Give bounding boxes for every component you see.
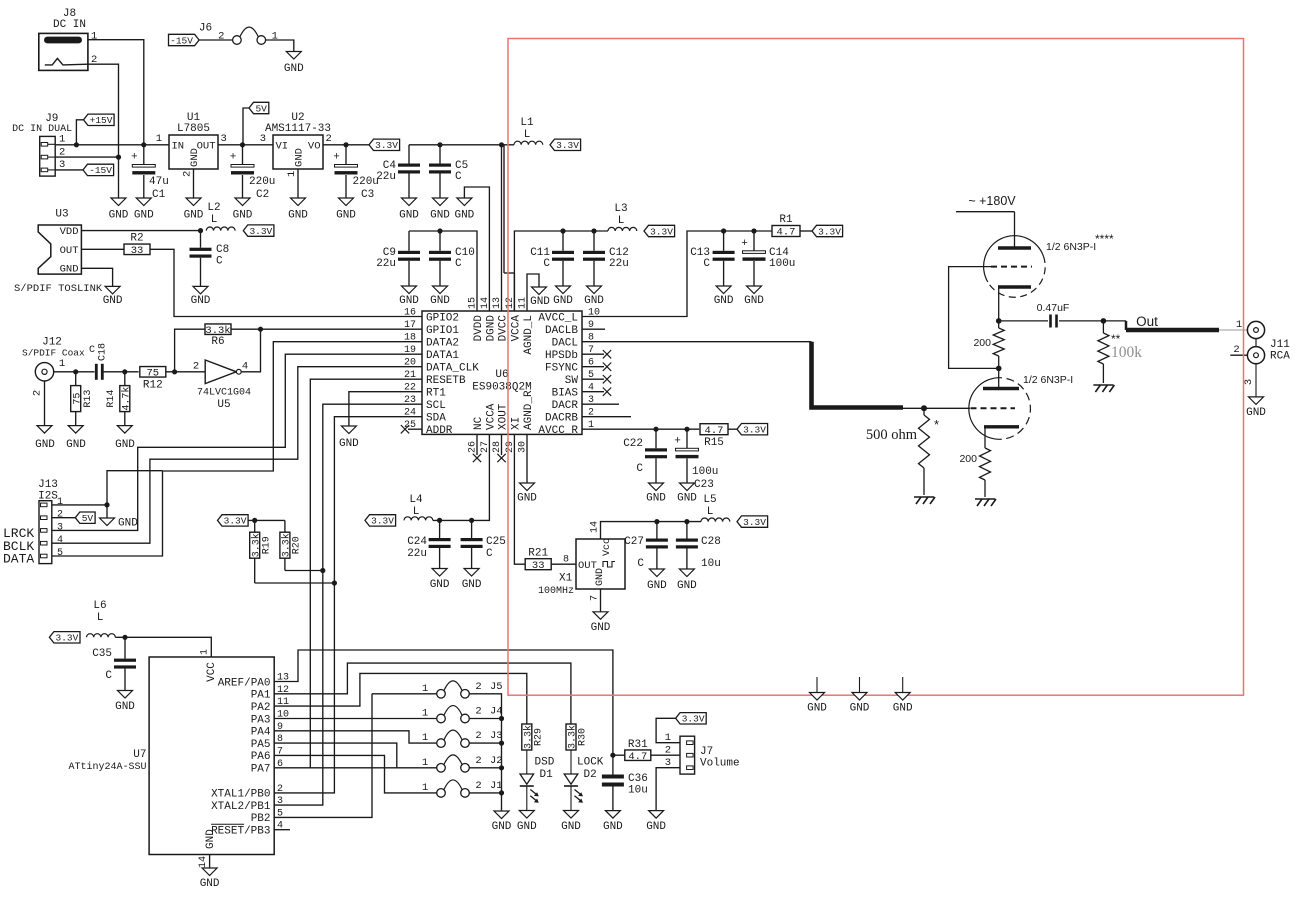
no-connect ADDR pin25 [401, 425, 409, 433]
wire DACL [582, 341, 812, 343]
svg-text:75: 75 [72, 393, 83, 405]
capacitor C22 [645, 448, 667, 458]
junction [591, 228, 596, 233]
junction [258, 327, 263, 332]
capacitor C5 [439, 145, 441, 198]
svg-text:C18: C18 [98, 343, 109, 361]
wire DACR stub [582, 403, 619, 405]
svg-text:3.3V: 3.3V [682, 714, 705, 725]
label C1 values [149, 176, 169, 201]
ground R13 [66, 426, 86, 451]
wire U1 OUT to U2 VI [218, 144, 273, 146]
wire J7 pin1 to 3.3V [656, 718, 680, 742]
inductor L4 [404, 517, 433, 521]
wire cathode to output cap [999, 320, 1048, 322]
resistor R15 [700, 424, 728, 437]
svg-text:GND: GND [189, 148, 201, 167]
ground C8 [191, 286, 211, 307]
jumper J4 [437, 706, 470, 723]
svg-text:4.7: 4.7 [628, 751, 647, 763]
svg-text:DATA1: DATA1 [426, 350, 459, 362]
wire [54, 371, 95, 373]
junction [252, 518, 257, 523]
wire U1 GND pin [193, 169, 195, 198]
junction [74, 142, 79, 147]
svg-text:C24: C24 [407, 536, 427, 548]
svg-text:DATA_CLK: DATA_CLK [426, 363, 479, 375]
label C9 values [376, 247, 396, 270]
svg-text:L: L [97, 612, 104, 624]
svg-text:VCC: VCC [206, 662, 218, 682]
resistor R20 3.3k [285, 520, 323, 570]
svg-text:3.3k: 3.3k [250, 533, 262, 557]
wire U2 GND pin [297, 169, 299, 198]
wire DATA_CLK to J13 [52, 367, 422, 544]
junction [499, 142, 504, 147]
svg-text:R6: R6 [211, 336, 224, 348]
no-connect [603, 375, 611, 383]
svg-text:XTAL2/PB1: XTAL2/PB1 [211, 801, 271, 813]
svg-text:C: C [636, 463, 643, 475]
svg-text:U7: U7 [133, 749, 146, 761]
wire [166, 371, 205, 373]
resistor R30 [566, 724, 579, 750]
svg-text:+15V: +15V [90, 115, 113, 126]
wire DATA2 to J13 [52, 342, 422, 556]
svg-text:3.3V: 3.3V [650, 226, 673, 237]
wire J9 pin1 to U1 IN [55, 144, 169, 146]
svg-text:RT1: RT1 [426, 388, 446, 400]
jumper J2 [437, 755, 470, 772]
wire U3 VDD to L2 [81, 230, 200, 232]
svg-text:DATA: DATA [3, 552, 34, 567]
label L2 [207, 202, 220, 226]
no-connect pin28 [497, 454, 505, 462]
svg-text:C: C [216, 256, 223, 268]
wire to RCA pin1 [1219, 329, 1247, 331]
junction [684, 427, 689, 432]
wire stub [582, 378, 604, 380]
wire RESET/PB3 stub [274, 829, 290, 831]
capacitor C3 [333, 152, 357, 175]
svg-text:GND: GND [60, 264, 79, 276]
junction [198, 228, 203, 233]
junction [240, 142, 245, 147]
svg-text:L: L [707, 506, 714, 518]
junction [332, 580, 337, 585]
svg-text:GND: GND [677, 580, 697, 592]
svg-text:C36: C36 [628, 773, 648, 785]
ground U2 [288, 198, 308, 222]
svg-text:-15V: -15V [170, 35, 193, 46]
power flag 3.3V J7 [676, 713, 707, 725]
ground D1 [517, 811, 537, 834]
svg-text:GND: GND [584, 295, 604, 307]
svg-text:U3: U3 [55, 209, 68, 221]
svg-text:SDA: SDA [426, 413, 446, 425]
svg-text:220u: 220u [249, 176, 275, 188]
svg-text:J1: J1 [490, 780, 503, 792]
svg-text:4.7: 4.7 [777, 227, 796, 239]
connector J13 I2S [38, 479, 63, 564]
svg-text:AREF/PA0: AREF/PA0 [218, 677, 271, 689]
label C11 values [530, 247, 550, 270]
label C14 values [769, 247, 795, 270]
svg-text:L: L [211, 214, 218, 226]
ground at J6 [284, 52, 304, 76]
capacitor C9 22u [408, 231, 410, 286]
wire PA1 to R30 [274, 663, 571, 724]
svg-text:100k: 100k [1111, 344, 1142, 361]
svg-text:10u: 10u [701, 558, 721, 570]
svg-text:GND: GND [553, 295, 573, 307]
junction [343, 142, 348, 147]
ground D2 [561, 811, 581, 834]
resistor R13 75 [75, 372, 77, 426]
label GND J13 [118, 518, 138, 530]
svg-text:GND: GND [430, 295, 450, 307]
ground C36 [603, 811, 623, 833]
wire stub to ground [816, 677, 818, 693]
junction [104, 502, 109, 507]
wire DACRB stub [582, 416, 631, 418]
label L6 [93, 600, 106, 624]
label lower tube [1023, 374, 1073, 386]
capacitor C11 [552, 251, 574, 261]
svg-text:GND: GND [284, 63, 304, 75]
svg-text:4: 4 [57, 535, 63, 546]
labels LRCK BCLK DATA [3, 526, 34, 567]
label R31 [628, 739, 648, 751]
U6 top pin names and numbers [468, 297, 536, 355]
svg-text:5: 5 [57, 548, 63, 559]
svg-text:GND: GND [561, 821, 581, 833]
capacitor C12 22u [593, 231, 595, 286]
wire J7 pin3 to ground [656, 768, 680, 811]
svg-text:GND: GND [430, 210, 450, 222]
labels J1 [422, 780, 503, 794]
svg-text:3.3k: 3.3k [205, 325, 230, 337]
svg-text:2: 2 [57, 510, 63, 521]
svg-text:AGND_L: AGND_L [523, 315, 535, 355]
resistor R21 [525, 559, 551, 572]
svg-text:VI: VI [276, 141, 289, 153]
wire C9/C10 rail to DVDD [409, 231, 477, 311]
svg-text:C: C [703, 258, 710, 270]
junction [141, 142, 146, 147]
svg-text:GND: GND [191, 295, 211, 307]
wire 3.3V rail to L1 [409, 144, 514, 146]
ground C10 [430, 286, 450, 307]
ground C27 [647, 569, 667, 592]
wire [81, 248, 124, 250]
label C36 values [628, 773, 648, 797]
label R20 [292, 536, 303, 554]
svg-text:GND: GND [66, 439, 86, 451]
svg-text:J5: J5 [490, 681, 503, 693]
ground U1 [184, 198, 204, 222]
capacitor C35 [114, 659, 136, 669]
wire R31 to J7 pin2 [651, 754, 680, 756]
wire R2 to U6 GPIO2 [150, 249, 422, 316]
svg-text:X1: X1 [559, 573, 573, 585]
earth ground cathode [975, 499, 996, 506]
svg-text:33: 33 [131, 245, 144, 257]
svg-text:J2: J2 [490, 755, 503, 767]
svg-text:2: 2 [475, 706, 481, 718]
svg-text:3.3k: 3.3k [281, 533, 293, 557]
ground C28 [677, 569, 697, 592]
wire J5 to PB2 [274, 694, 372, 818]
svg-text:L: L [618, 215, 625, 227]
MCU U7 ATtiny24A-SSU [68, 649, 289, 868]
junction [437, 142, 442, 147]
svg-text:DGND: DGND [485, 315, 497, 342]
wire R6 to U6 GPIO1 [231, 328, 422, 330]
svg-text:RESET/PB3: RESET/PB3 [211, 826, 270, 838]
svg-text:1: 1 [272, 31, 278, 43]
svg-text:XI: XI [510, 417, 522, 430]
svg-text:*: * [934, 417, 939, 432]
resistor R31 [625, 750, 651, 763]
svg-text:2: 2 [182, 171, 194, 177]
svg-text:GND: GND [118, 518, 138, 530]
resistor R14 [120, 386, 133, 412]
svg-text:BIAS: BIAS [552, 388, 579, 400]
junction [653, 427, 658, 432]
labels LOCK D2 [577, 757, 604, 782]
svg-text:DVDD: DVDD [473, 315, 485, 342]
ground RT1 [339, 426, 359, 450]
svg-text:C: C [486, 548, 493, 560]
power flag 5V [249, 102, 269, 114]
capacitor C25 [471, 520, 473, 568]
svg-text:I2S: I2S [38, 491, 58, 503]
svg-text:PA1: PA1 [251, 690, 271, 702]
wire [199, 39, 233, 41]
LED D2 LOCK [564, 750, 583, 811]
junction [610, 753, 615, 758]
svg-text:16: 16 [404, 308, 416, 319]
wire J13 pin1 up [107, 471, 163, 505]
ground C11 [553, 286, 573, 307]
capacitor C23 100u [686, 429, 688, 483]
svg-text:GND: GND [647, 580, 667, 592]
ground J12 [35, 426, 55, 451]
svg-text:AGND_R: AGND_R [523, 390, 535, 430]
connector J6 jumper [199, 23, 278, 45]
wire L4 rail to VCCA pin27 [433, 434, 490, 520]
junction mid node [996, 366, 1002, 372]
power flag 3.3V L2 [243, 225, 274, 237]
svg-text:5V: 5V [255, 103, 267, 114]
label C3 values [353, 176, 379, 201]
svg-text:GND: GND [288, 210, 308, 222]
label R13 [83, 390, 94, 408]
svg-text:3: 3 [260, 133, 266, 145]
label R12 [143, 380, 163, 392]
junction [172, 369, 177, 374]
capacitor C14 [741, 238, 765, 261]
junction [751, 228, 756, 233]
capacitor C13 [713, 251, 735, 261]
junction [437, 518, 442, 523]
svg-text:2: 2 [277, 784, 283, 795]
wire PA2 to R29 [274, 673, 527, 724]
optical receiver U3 TOSLINK [38, 209, 81, 276]
power flag 3.3V L3 [644, 225, 675, 237]
svg-text:PA4: PA4 [251, 727, 271, 739]
svg-text:L3: L3 [614, 203, 627, 215]
svg-text:GND: GND [115, 701, 135, 713]
svg-text:****: **** [1095, 232, 1114, 246]
svg-text:GND: GND [517, 821, 537, 833]
svg-text:3.3V: 3.3V [375, 140, 398, 151]
junction [560, 228, 565, 233]
svg-text:C28: C28 [701, 536, 721, 548]
wire U2 VO [323, 144, 369, 146]
svg-text:GPIO2: GPIO2 [426, 312, 459, 324]
wire [266, 40, 294, 52]
svg-text:R19: R19 [262, 536, 273, 554]
svg-text:GND: GND [595, 568, 606, 586]
connector J8 DC IN [39, 8, 98, 70]
svg-text:L4: L4 [409, 494, 423, 506]
wire to bottom tube grid [903, 407, 970, 409]
svg-text:R20: R20 [292, 536, 303, 554]
inductor L2 [206, 227, 235, 231]
svg-text:3.3V: 3.3V [743, 517, 766, 528]
svg-text:1: 1 [286, 171, 298, 177]
svg-text:C: C [455, 171, 462, 183]
wire cap to out node [1059, 320, 1103, 322]
svg-text:22u: 22u [407, 548, 427, 560]
svg-text:C23: C23 [694, 479, 714, 491]
power flag 3.3V pullups [218, 515, 249, 527]
wire VCCA rail [514, 231, 608, 311]
ground jumpers [492, 811, 512, 833]
svg-text:GND: GND [744, 295, 764, 307]
capacitor C22 [655, 429, 657, 483]
oscillator X1 100MHz [538, 521, 625, 601]
wire J11 shield to ground [1255, 364, 1257, 397]
svg-text:GND: GND [850, 703, 870, 715]
svg-text:Volume: Volume [700, 758, 740, 770]
resistor R6 3.3k feedback [175, 329, 206, 372]
ground J11 [1246, 397, 1266, 419]
svg-text:3.3V: 3.3V [56, 633, 79, 644]
svg-text:1: 1 [422, 708, 428, 720]
inductor L6 [87, 634, 116, 638]
wire [76, 120, 83, 145]
svg-text:4.7: 4.7 [705, 425, 724, 437]
resistor R19 [250, 532, 263, 558]
svg-text:R12: R12 [143, 380, 163, 392]
capacitor C2 220u [242, 145, 244, 198]
svg-text:R21: R21 [528, 548, 548, 560]
ground C25 [462, 569, 482, 592]
svg-text:1: 1 [91, 31, 97, 43]
capacitor C4 [398, 164, 420, 174]
power flag -15V at J9 [83, 164, 114, 176]
svg-text:DACR: DACR [552, 400, 579, 412]
capacitor C5 [429, 164, 451, 174]
power flag 3.3V L6 [49, 632, 80, 644]
svg-text:U6: U6 [495, 369, 508, 381]
svg-text:PA6: PA6 [251, 751, 271, 763]
svg-text:4.7k: 4.7k [120, 387, 132, 411]
svg-text:2: 2 [1233, 344, 1239, 356]
wire AVCC_R rail [582, 428, 699, 430]
svg-text:SW: SW [565, 375, 579, 387]
svg-text:1: 1 [156, 133, 162, 145]
svg-text:R1: R1 [779, 214, 793, 226]
red highlight rectangle [508, 39, 1244, 696]
ground C12 [584, 286, 604, 307]
svg-text:2: 2 [665, 745, 671, 757]
capacitor C14 100u [753, 231, 755, 286]
wire stub [582, 366, 604, 368]
thick wire DACL to tube grid [812, 342, 904, 408]
svg-text:2: 2 [218, 31, 224, 43]
svg-text:C3: C3 [361, 189, 374, 201]
svg-text:L2: L2 [207, 202, 220, 214]
ground bottom [850, 693, 870, 715]
junction [73, 369, 78, 374]
label R2 [130, 233, 143, 245]
no-connect [603, 388, 611, 396]
svg-text:200: 200 [959, 453, 977, 465]
ground J7 [646, 811, 666, 833]
svg-text:3: 3 [277, 796, 283, 807]
labels J4 [422, 706, 503, 720]
svg-text:AVCC_R: AVCC_R [538, 425, 578, 437]
svg-text:GND: GND [336, 210, 356, 222]
labels J5 [422, 681, 503, 695]
svg-text:GND: GND [115, 439, 135, 451]
wire DACLB stub [582, 328, 605, 330]
ground C22 [646, 483, 666, 504]
capacitor C3 220u [345, 145, 347, 198]
svg-text:-15V: -15V [89, 165, 112, 176]
ground C35 [115, 691, 135, 714]
wire upper grid feedback [949, 267, 997, 369]
junction [122, 635, 127, 640]
label R19 [262, 536, 273, 554]
svg-text:DSD: DSD [535, 757, 555, 769]
svg-text:PA3: PA3 [251, 714, 271, 726]
svg-text:Vcc: Vcc [602, 538, 613, 556]
svg-text:R29: R29 [534, 728, 545, 746]
svg-text:33: 33 [532, 560, 545, 572]
wire XOUT stub pin28 [501, 434, 503, 455]
svg-text:RCA: RCA [1270, 351, 1290, 363]
svg-text:3.3V: 3.3V [743, 425, 766, 436]
svg-text:L6: L6 [93, 600, 106, 612]
wire J8 pin1 to rail [88, 40, 144, 145]
svg-text:2: 2 [475, 780, 481, 792]
svg-text:GND: GND [517, 492, 537, 504]
resistor R13 [71, 386, 84, 412]
svg-text:DACLB: DACLB [545, 325, 578, 337]
junction cathode node [996, 318, 1002, 324]
label C27 values [624, 536, 644, 570]
svg-text:GND: GND [184, 210, 204, 222]
junction [116, 155, 121, 160]
svg-text:NC: NC [473, 416, 485, 430]
IC U6 ES9038Q2M [422, 311, 582, 434]
svg-text:C: C [455, 258, 462, 270]
